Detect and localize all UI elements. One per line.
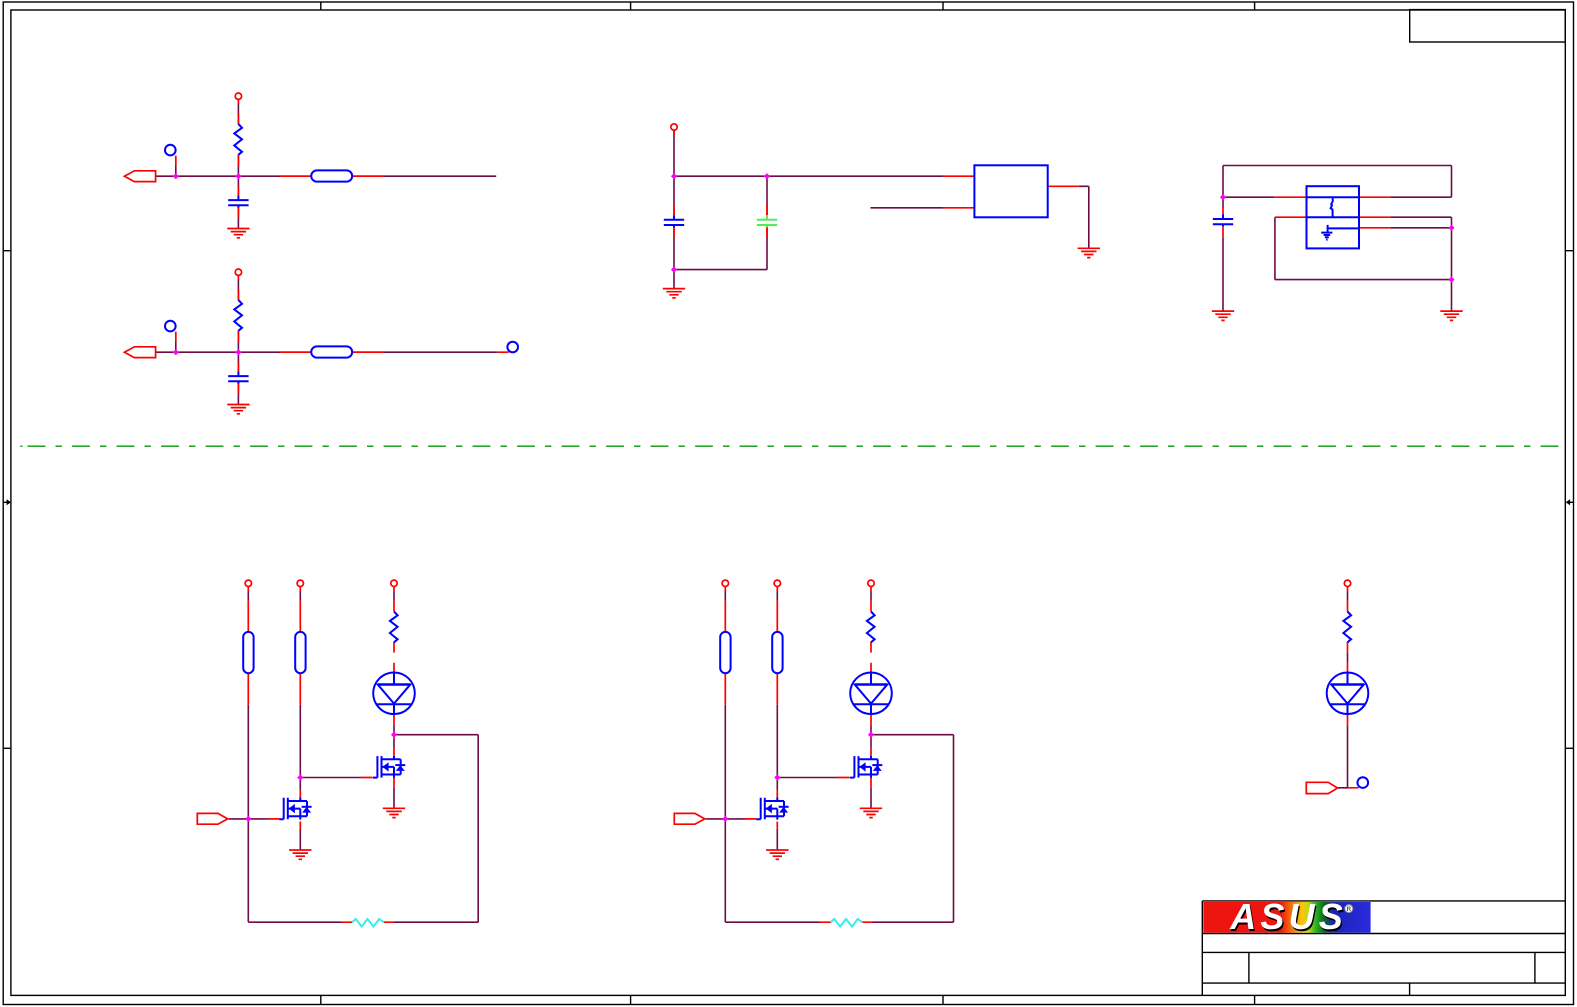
- svg-text:R: R: [1347, 906, 1352, 913]
- svg-text:ASUS: ASUS: [1229, 896, 1347, 937]
